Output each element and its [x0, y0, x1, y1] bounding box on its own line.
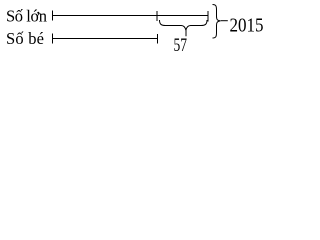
svg-text:57: 57: [174, 35, 188, 56]
svg-text:2015: 2015: [230, 15, 264, 37]
svg-text:Số lớn: Số lớn: [6, 7, 47, 26]
svg-text:Số bé: Số bé: [6, 29, 44, 48]
